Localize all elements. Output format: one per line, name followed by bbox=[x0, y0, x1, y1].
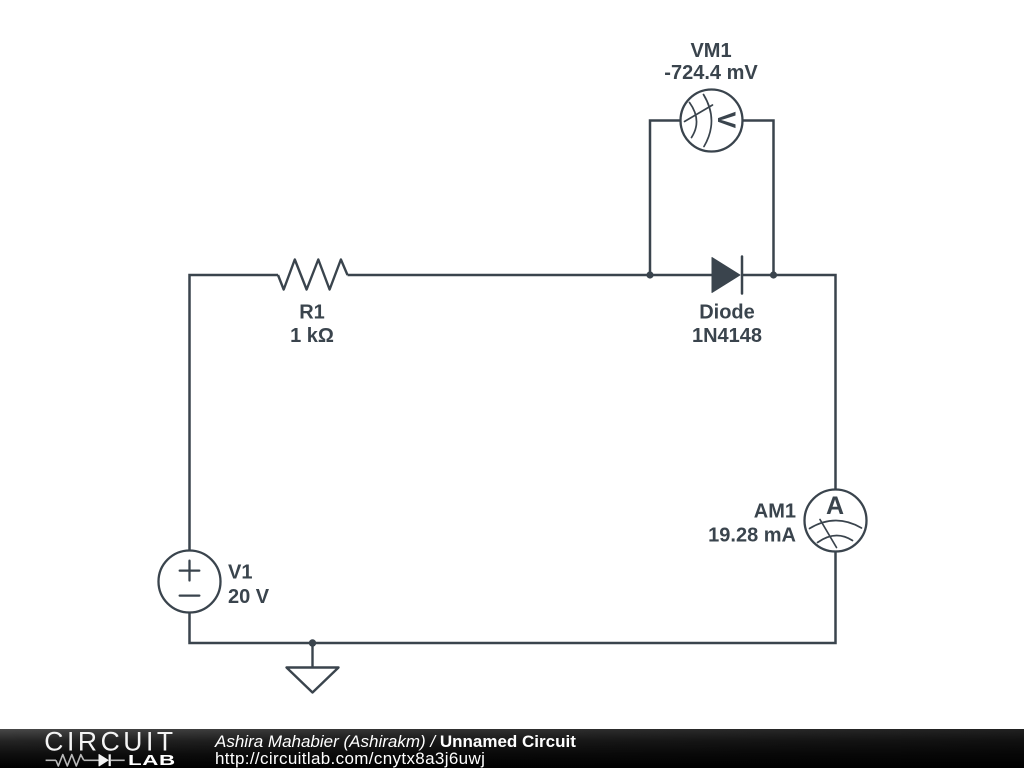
node junction right of diode bbox=[770, 271, 777, 278]
wire top right + right vertical upper bbox=[741, 275, 836, 490]
svg-text:VM1: VM1 bbox=[690, 40, 731, 62]
wire top left + left vertical bbox=[190, 275, 279, 551]
svg-text:19.28 mA: 19.28 mA bbox=[708, 525, 796, 547]
wire voltmeter left branch bbox=[650, 121, 681, 276]
svg-text:AM1: AM1 bbox=[754, 501, 796, 523]
voltmeter VM1 bbox=[681, 90, 743, 152]
wire top middle bbox=[348, 274, 714, 277]
diode D1 1N4148 bbox=[712, 257, 742, 294]
wire voltmeter right branch bbox=[743, 121, 774, 276]
ground bbox=[287, 643, 339, 693]
svg-text:1 kΩ: 1 kΩ bbox=[290, 325, 334, 347]
svg-text:http://circuitlab.com/cnytx8a3: http://circuitlab.com/cnytx8a3j6uwj bbox=[215, 749, 485, 768]
svg-text:20 V: 20 V bbox=[228, 586, 270, 608]
svg-text:-724.4 mV: -724.4 mV bbox=[664, 62, 758, 84]
svg-text:V: V bbox=[712, 112, 740, 129]
resistor R1 bbox=[278, 260, 348, 290]
svg-text:Diode: Diode bbox=[699, 302, 755, 324]
svg-text:1N4148: 1N4148 bbox=[692, 325, 762, 347]
logo resistor-diode symbol bbox=[46, 754, 125, 766]
svg-text:R1: R1 bbox=[299, 302, 325, 324]
ammeter AM1 bbox=[805, 490, 867, 552]
voltage source V1 bbox=[159, 551, 221, 613]
footer bar bbox=[0, 729, 1024, 768]
svg-text:V1: V1 bbox=[228, 562, 252, 584]
wire V1 bottom stub + bottom horizontal + right vertical lower bbox=[190, 552, 836, 644]
node junction ground bbox=[309, 639, 316, 646]
logo LAB text bbox=[128, 752, 176, 768]
node junction left of diode bbox=[646, 271, 653, 278]
svg-text:LAB: LAB bbox=[128, 752, 176, 768]
svg-text:A: A bbox=[826, 492, 844, 520]
